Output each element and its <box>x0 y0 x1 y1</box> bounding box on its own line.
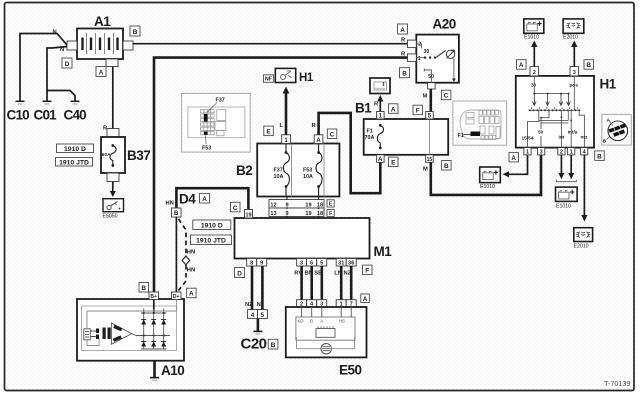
svg-text:18: 18 <box>317 211 323 217</box>
M1 pin 19 (top) <box>245 210 253 219</box>
arrow H1.1 left to E1010 <box>503 155 528 178</box>
destination icon box (above B1) <box>370 78 390 94</box>
svg-text:M: M <box>423 167 428 173</box>
arrow H1.2 up to E1010 <box>531 41 537 67</box>
A10 internal regulator <box>84 300 177 346</box>
B2 pin A <box>314 135 323 144</box>
wire M1.8 to C20.4 <box>251 266 254 310</box>
svg-text:E: E <box>266 129 271 136</box>
A10 pin D+ <box>172 292 182 300</box>
label A (A10 D+ wire) <box>187 288 197 298</box>
svg-text:19: 19 <box>305 211 311 217</box>
ignition switch contacts H1 <box>516 76 617 148</box>
A20 pin (bottom) <box>428 83 436 89</box>
svg-text:3: 3 <box>540 150 543 156</box>
wire stubs B2 to M1 <box>286 197 288 219</box>
svg-text:HS: HS <box>339 319 345 324</box>
svg-text:8: 8 <box>250 261 253 267</box>
H1 bottom pin 3 <box>538 148 545 156</box>
E1010 box (battery, mid) <box>556 187 578 209</box>
svg-text:1: 1 <box>418 56 421 62</box>
wire A1.B to A20 pin2 <box>133 43 408 45</box>
E5050 box (key icon) <box>103 199 124 220</box>
svg-text:31: 31 <box>338 261 344 267</box>
svg-text:M: M <box>423 94 428 100</box>
fusebox B2 <box>236 144 339 197</box>
wire M1.3 to E50.2 <box>300 266 303 300</box>
label B (C20) <box>268 339 278 349</box>
instrument cluster E50 <box>286 307 367 378</box>
svg-text:int: int <box>559 135 565 141</box>
svg-text:NZ: NZ <box>245 302 253 308</box>
wire M1.5 to E50.3 <box>320 266 323 300</box>
svg-text:E2010: E2010 <box>574 244 589 250</box>
label F (M1 pins 31,36) <box>363 265 373 275</box>
variant box 1910 D <box>193 220 231 230</box>
arrow H1.3 up to E2010 <box>571 41 577 67</box>
B1 pin 15 <box>426 155 434 163</box>
svg-text:B: B <box>402 71 407 78</box>
svg-text:E1010: E1010 <box>480 184 495 190</box>
svg-text:3: 3 <box>300 261 303 267</box>
label A (H1 bottom) <box>509 152 519 162</box>
M1 pin 9 <box>257 259 267 267</box>
E1010 box (battery, top) <box>524 19 544 41</box>
svg-text:1910 JTD: 1910 JTD <box>196 237 226 244</box>
svg-text:1910 D: 1910 D <box>64 146 86 153</box>
A10 internal diode bridge <box>136 300 170 350</box>
fuse F37 10A <box>274 144 290 197</box>
svg-text:12: 12 <box>270 202 276 208</box>
svg-text:A: A <box>189 291 194 298</box>
H1 top pin 3 <box>570 67 579 76</box>
svg-text:N: N <box>257 302 261 308</box>
svg-text:F: F <box>329 211 332 217</box>
svg-text:E2010: E2010 <box>563 35 578 41</box>
A20 internals <box>416 41 456 82</box>
svg-text:1910 JTD: 1910 JTD <box>59 159 89 166</box>
E50 pin row <box>297 300 357 308</box>
svg-text:A10: A10 <box>161 363 184 378</box>
label NF <box>263 75 273 83</box>
engine ECU M1 <box>235 218 393 259</box>
svg-text:E50: E50 <box>339 363 362 378</box>
svg-text:NF: NF <box>265 77 272 83</box>
svg-text:HN: HN <box>187 250 195 256</box>
wire dashed variant D4.B to A10.D+ <box>179 219 187 254</box>
M1 pin 8 <box>247 259 257 267</box>
svg-text:2: 2 <box>533 70 536 76</box>
svg-text:M1: M1 <box>374 244 393 259</box>
label C (B2 pinA) <box>327 129 337 139</box>
wire M1.9 to C20.5 <box>261 266 264 310</box>
H1 destination icon box <box>275 68 314 84</box>
svg-text:60A: 60A <box>102 152 111 158</box>
svg-text:D4: D4 <box>179 192 196 207</box>
svg-text:1910 D: 1910 D <box>201 222 223 229</box>
M1 pin 31 <box>336 259 346 267</box>
B1 pin A <box>377 155 385 163</box>
svg-text:C: C <box>330 132 335 139</box>
svg-text:int/a: int/a <box>568 130 578 136</box>
label B (B1 pin15) <box>442 161 452 171</box>
B1 pin 5 <box>426 112 434 120</box>
A20 pin (bottom left) <box>408 54 417 62</box>
label B (A1) <box>130 26 140 36</box>
svg-text:B: B <box>271 342 276 349</box>
svg-text:L: L <box>280 123 284 129</box>
svg-text:F1: F1 <box>458 133 464 139</box>
svg-text:F37: F37 <box>274 168 283 174</box>
svg-text:A: A <box>320 319 323 324</box>
svg-text:C10: C10 <box>7 108 30 123</box>
wire B1.15 to H1.3 <box>431 155 541 195</box>
M1 pin 3 <box>297 259 307 267</box>
svg-text:15: 15 <box>427 157 433 163</box>
svg-text:1: 1 <box>526 150 529 156</box>
svg-text:B: B <box>597 153 602 160</box>
M1 pin 5 <box>317 259 327 267</box>
svg-text:13: 13 <box>270 211 276 217</box>
fuse B37 <box>101 129 150 182</box>
H1 bottom pin 2 <box>558 148 565 156</box>
wire M1.36 to E50.7 <box>350 266 353 300</box>
svg-text:D: D <box>237 270 242 277</box>
ground C10 <box>7 101 30 122</box>
svg-text:19: 19 <box>245 212 251 218</box>
svg-text:70A: 70A <box>365 135 375 141</box>
label B (A10 B+ wire) <box>139 283 149 293</box>
wire M1.31 to E50.1 <box>340 266 343 300</box>
wire M1.6 to E50.4 <box>310 266 313 300</box>
svg-text:E1010: E1010 <box>556 203 571 209</box>
svg-text:3: 3 <box>573 70 576 76</box>
label D (A1) <box>62 58 72 68</box>
wire trunk A10.B+ up and right to A20 pin1 <box>154 58 408 292</box>
label B (H1 top) <box>584 60 594 69</box>
wire H1.4 down to E2010 <box>581 155 587 222</box>
svg-text:A: A <box>400 27 405 34</box>
M1 pin 36 <box>346 259 356 267</box>
svg-text:C: C <box>444 93 449 100</box>
wire B1.A to B2.A <box>319 113 381 193</box>
A10 pin B+ <box>149 292 159 300</box>
svg-text:E: E <box>391 160 396 167</box>
label E (row) <box>327 200 334 208</box>
label A (B1 pin1) <box>389 104 399 114</box>
svg-text:10A: 10A <box>274 174 284 180</box>
svg-text:F: F <box>365 268 369 275</box>
svg-text:10A: 10A <box>303 174 313 180</box>
svg-text:A: A <box>316 138 321 144</box>
variant box 1910 JTD <box>191 235 232 245</box>
svg-text:H1: H1 <box>600 77 617 92</box>
svg-text:19: 19 <box>305 202 311 208</box>
label D (M1 pins 8,9) <box>235 268 245 278</box>
H1 internals <box>522 76 589 148</box>
svg-text:F53: F53 <box>303 168 312 174</box>
svg-text:5: 5 <box>320 261 323 267</box>
variant box 1910 D <box>57 144 94 153</box>
svg-text:T-70139: T-70139 <box>604 379 630 388</box>
label A (D4) <box>200 193 210 203</box>
svg-text:A: A <box>202 196 207 203</box>
svg-text:B: B <box>133 29 138 36</box>
svg-text:D: D <box>65 61 70 68</box>
svg-text:50: 50 <box>538 130 544 136</box>
connector row F (under B2) <box>269 208 324 217</box>
wire to C40 <box>47 91 75 102</box>
connector C20 pins 4,5 <box>248 310 268 319</box>
svg-text:B: B <box>174 211 179 217</box>
svg-text:E5050: E5050 <box>103 214 118 220</box>
H1 top pin 2 <box>530 67 539 76</box>
H1 bottom pin 1 <box>524 148 531 156</box>
label A (A1) <box>96 67 106 77</box>
arrow B1 pin1 up to icon <box>377 95 383 112</box>
wire D4.B up and right to M1 pin19 <box>176 188 248 209</box>
svg-text:B: B <box>444 163 449 170</box>
E2010 box (lamps, top) <box>563 19 584 41</box>
wire A1.A down to B37 <box>112 67 114 129</box>
svg-text:F: F <box>416 108 420 115</box>
label C (A20 bottom wire) <box>441 90 451 100</box>
A1 pin A (bottom) <box>106 59 118 67</box>
wire N to C10 <box>20 34 67 102</box>
label C (M1 pin19 wire) <box>231 202 241 212</box>
svg-text:F1: F1 <box>367 129 373 135</box>
svg-text:C20: C20 <box>241 336 267 353</box>
svg-text:C01: C01 <box>34 108 58 123</box>
variant box 1910 JTD <box>56 158 93 167</box>
label B (H1 bottom) <box>595 151 605 161</box>
wire A20 to B1 pin5 <box>429 89 432 112</box>
alternator A10 <box>77 299 184 378</box>
svg-text:15/54: 15/54 <box>522 136 534 142</box>
label F (row) <box>327 209 334 217</box>
wire dashed lower <box>179 265 187 291</box>
svg-text:B: B <box>603 138 607 144</box>
svg-text:9: 9 <box>260 261 263 267</box>
label A (E50) <box>361 294 370 303</box>
wire D4.B solid down to A10.D+ <box>175 217 177 292</box>
ignition switch A20 <box>416 17 459 83</box>
label A (A20) <box>398 24 408 34</box>
inset photo fusebox (B2) <box>182 93 251 152</box>
svg-text:B+: B+ <box>150 294 157 300</box>
svg-text:1: 1 <box>570 150 573 156</box>
svg-text:C: C <box>233 205 238 212</box>
wire N to C01 <box>47 47 67 102</box>
svg-text:A: A <box>391 106 396 113</box>
H1 bottom pin 1b <box>568 148 575 156</box>
ground C40 <box>64 101 87 122</box>
svg-text:C40: C40 <box>64 108 87 123</box>
svg-text:B1: B1 <box>355 101 372 116</box>
A10 ground <box>150 361 159 381</box>
svg-text:KD: KD <box>298 319 304 324</box>
arrows H1 2,1 down to E1010 <box>556 155 576 182</box>
svg-text:36: 36 <box>348 261 354 267</box>
A1 pin D (left) <box>67 41 77 50</box>
B1 pin 1 <box>377 112 385 120</box>
svg-text:A: A <box>378 157 383 163</box>
connector face icon (H1 right) <box>602 114 631 145</box>
A10 internal stator winding <box>103 323 137 344</box>
svg-text:2: 2 <box>560 150 563 156</box>
E2010 box (lamps, bottom) <box>574 228 593 250</box>
label F (B1 pin5) <box>413 105 423 115</box>
svg-text:N: N <box>53 30 57 36</box>
svg-text:B2: B2 <box>236 163 252 178</box>
svg-text:.: . <box>350 319 351 324</box>
splice diamond <box>182 256 190 265</box>
arrow B37 to E5050 <box>110 182 116 198</box>
pin B (D4) <box>172 208 182 217</box>
svg-text:B: B <box>310 319 313 324</box>
svg-text:N: N <box>60 47 64 53</box>
svg-text:B37: B37 <box>127 148 150 163</box>
H1 bottom pin 4 <box>581 148 588 156</box>
M1 pin 6 <box>307 259 317 267</box>
label E (B1 pinA) <box>389 157 399 167</box>
svg-text:HN: HN <box>166 201 174 207</box>
svg-text:F53: F53 <box>202 145 211 151</box>
battery A1 <box>77 14 123 59</box>
A1 pin B (right) <box>123 41 133 50</box>
label E (B2 pin1) <box>264 126 274 136</box>
A20 pin (top left) <box>408 40 417 48</box>
svg-text:H1: H1 <box>299 72 314 84</box>
fuse F53 10A <box>303 144 322 197</box>
label B (A20) <box>400 68 410 78</box>
svg-text:6: 6 <box>310 261 313 267</box>
B2 pin 1 <box>282 135 291 144</box>
label A (H1 top) <box>517 60 527 69</box>
svg-text:A: A <box>99 69 104 76</box>
fuse F1 70A <box>365 124 384 149</box>
svg-text:B: B <box>141 285 146 292</box>
ground C01 <box>34 101 58 122</box>
svg-text:E1010: E1010 <box>524 35 539 41</box>
svg-text:A20: A20 <box>433 17 456 32</box>
svg-text:HN: HN <box>187 268 195 274</box>
svg-text:B: B <box>586 62 591 69</box>
svg-text:A1: A1 <box>94 14 111 29</box>
svg-text:18: 18 <box>317 202 323 208</box>
svg-text:D+: D+ <box>173 294 180 300</box>
connector row E (under B2) <box>269 200 324 209</box>
svg-text:30: 30 <box>531 83 537 89</box>
C20 ground <box>241 319 267 353</box>
svg-text:ntz: ntz <box>581 135 589 141</box>
E1010 box (battery, left) <box>480 167 501 190</box>
svg-text:A: A <box>511 155 516 162</box>
svg-text:A: A <box>363 296 368 303</box>
svg-text:30: 30 <box>424 49 430 55</box>
fuse box B1 <box>355 101 448 155</box>
svg-text:A: A <box>519 62 524 69</box>
wire B2 pin1 up with arrow to H1 icon <box>283 87 290 135</box>
inset photo fusebox (B1/F1) <box>453 101 507 145</box>
